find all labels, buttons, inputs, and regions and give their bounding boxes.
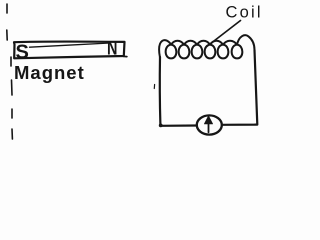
magnet bar outline — [14, 42, 125, 59]
galvanometer needle arrowhead — [204, 116, 212, 124]
svg-text:S: S — [16, 42, 29, 64]
galvanometer needle shaft — [208, 119, 210, 132]
dashed reference line (left) — [7, 4, 13, 139]
svg-text:N: N — [107, 37, 117, 58]
svg-text:Coil: Coil — [226, 4, 263, 22]
stray mark left of wire — [153, 85, 155, 89]
svg-text:Magnet: Magnet — [14, 62, 85, 83]
galvanometer G — [197, 115, 222, 134]
coil leader line — [206, 21, 241, 48]
junction blob bottom-left corner — [159, 124, 163, 128]
magnet inner double-stroke line — [30, 43, 111, 47]
magnet bottom overshoot tick — [124, 55, 127, 57]
coil (6 loops) — [159, 35, 254, 58]
left circuit wire — [160, 57, 197, 126]
right circuit wire — [223, 50, 258, 125]
